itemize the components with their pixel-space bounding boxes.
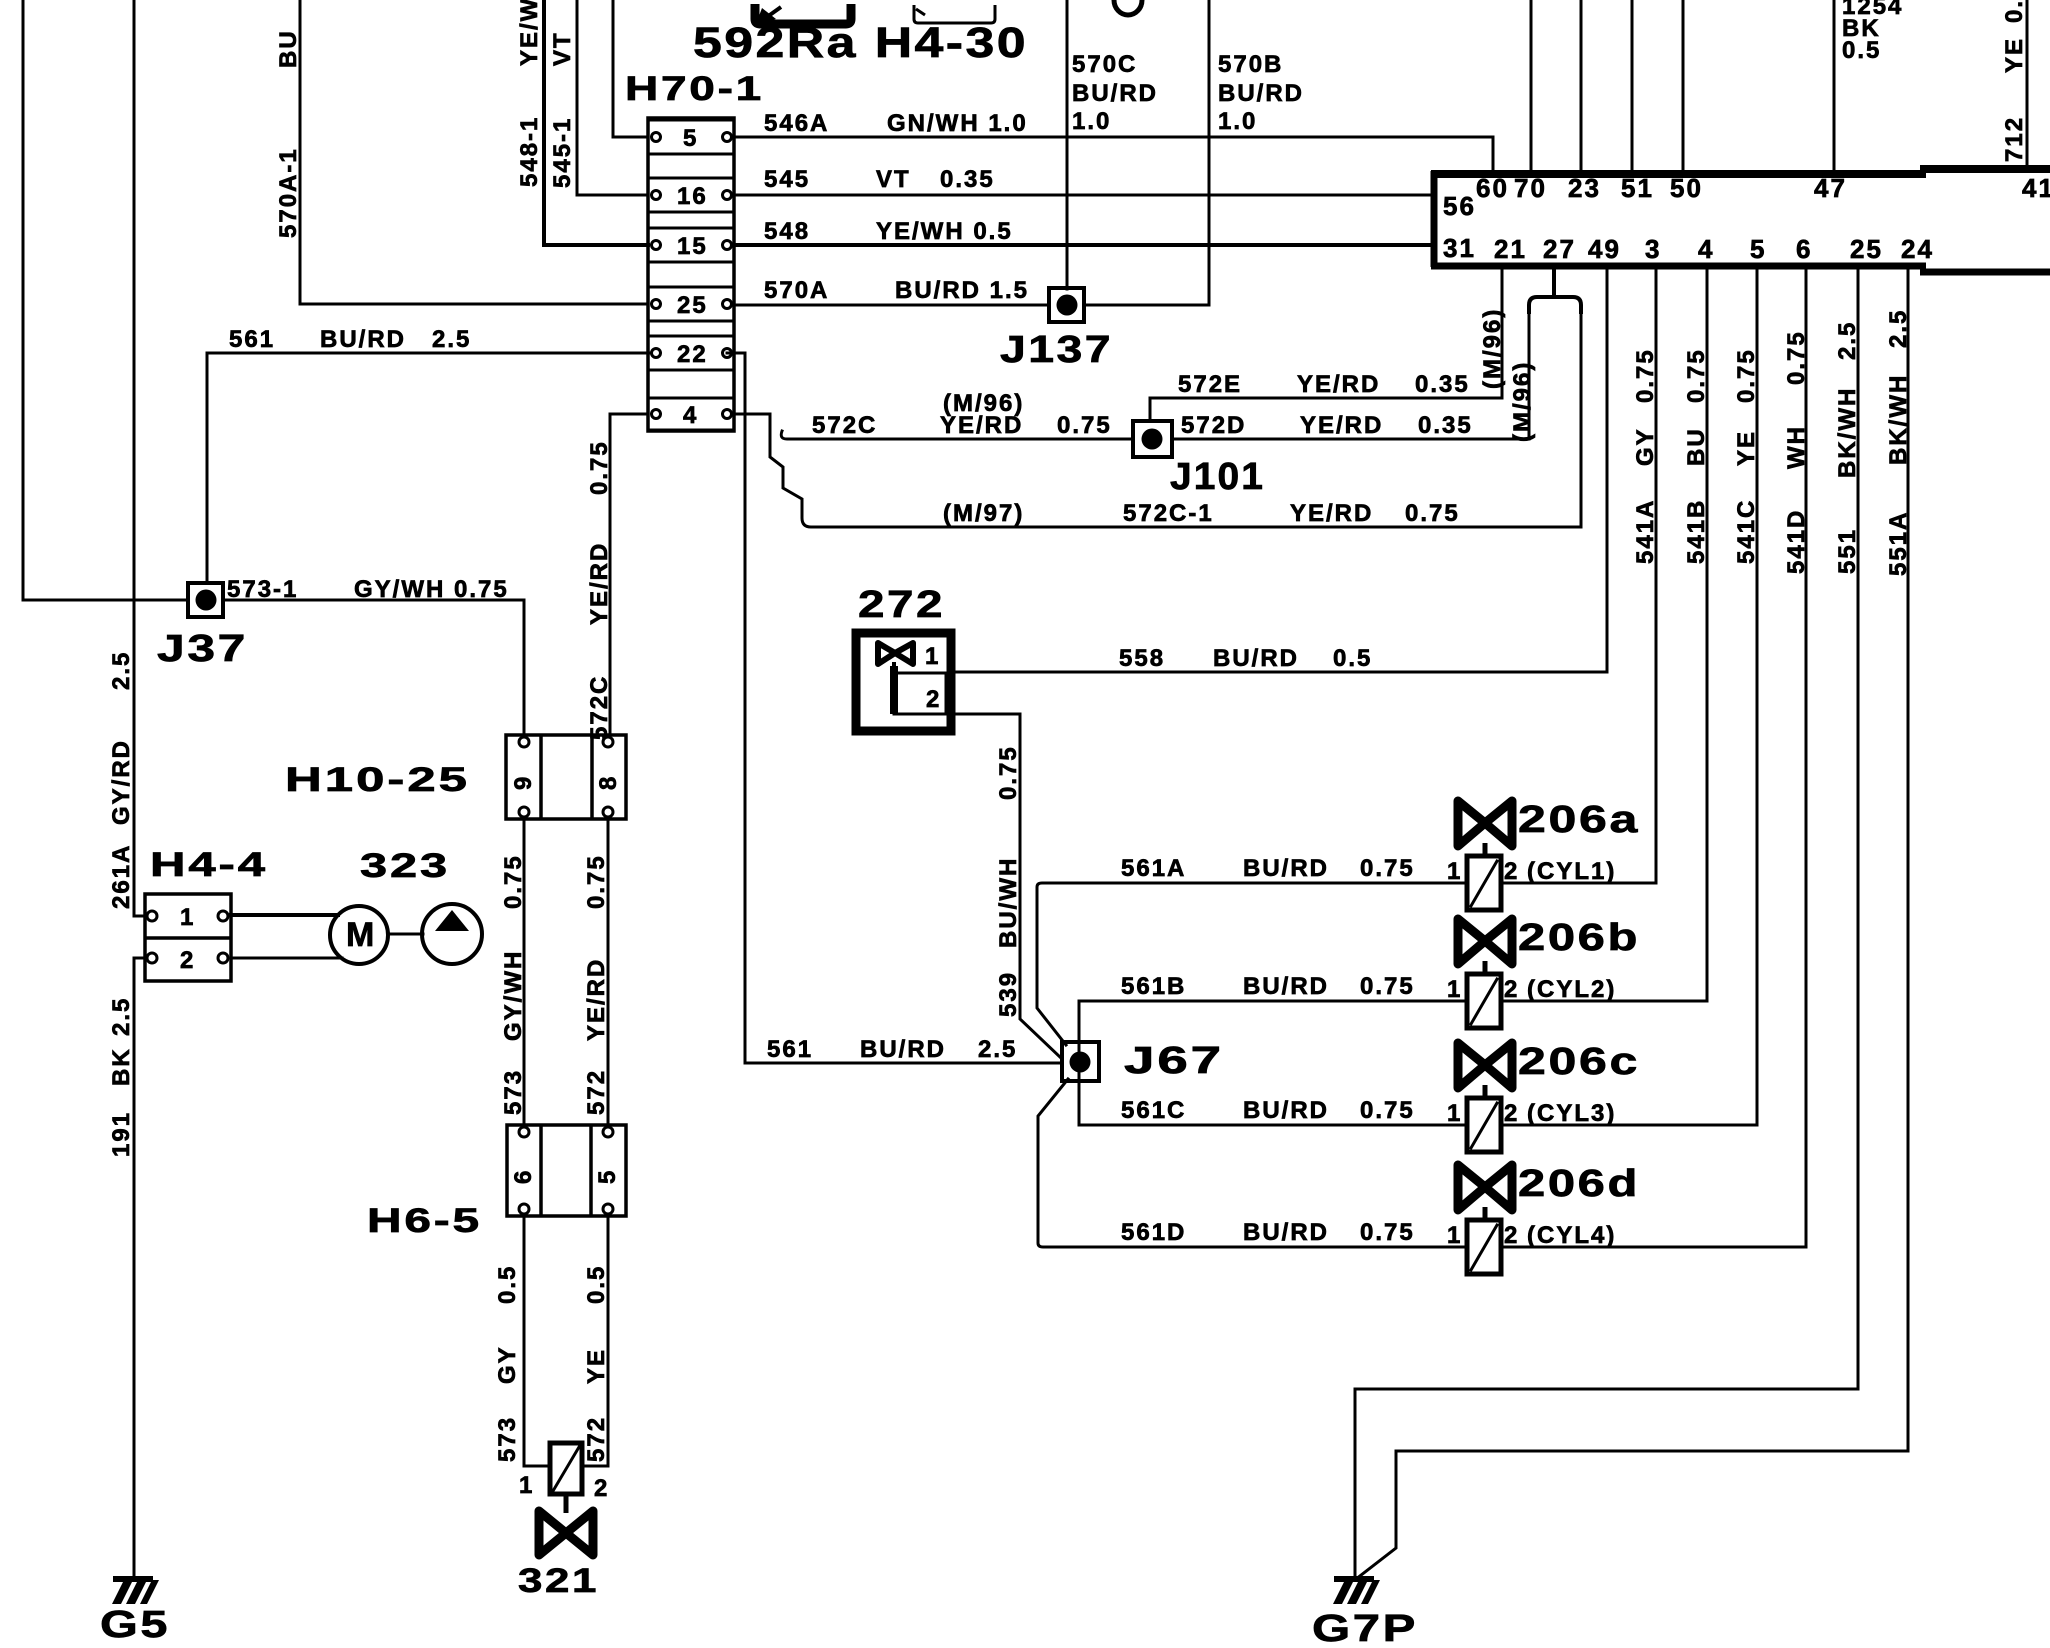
svg-text:YE/RD: YE/RD (586, 542, 613, 625)
label 561 BU/RD 2.5 (at J67) (767, 1036, 1017, 1063)
svg-text:(CYL1): (CYL1) (1527, 858, 1616, 885)
wire to ECU pin 50 (1682, 0, 1685, 171)
wire motor to pump (388, 933, 423, 936)
svg-text:545-1: 545-1 (549, 117, 576, 188)
svg-text:5: 5 (683, 125, 698, 152)
label 572E YE/RD 0.35 (1178, 371, 1470, 398)
svg-text:206d: 206d (1518, 1163, 1640, 1205)
svg-text:558: 558 (1119, 645, 1165, 672)
svg-text:0.75: 0.75 (1683, 348, 1710, 403)
svg-text:0.5: 0.5 (583, 1265, 610, 1304)
svg-text:WH: WH (1783, 425, 1810, 469)
svg-text:BU/RD: BU/RD (1072, 80, 1158, 107)
injector solenoid 206a (1447, 856, 1616, 910)
wire 572 YE/RD 0.75 (H10-25 pin 8 to H6-5 pin 5) (607, 819, 610, 1125)
svg-text:1: 1 (1447, 1100, 1462, 1127)
label 1254 BK 0.5 (1842, 0, 1903, 64)
svg-text:191: 191 (108, 1111, 135, 1157)
svg-text:8: 8 (595, 775, 622, 790)
injector solenoid 206b (1447, 974, 1616, 1028)
svg-text:572C: 572C (586, 675, 613, 740)
wire 558 BU/RD 0.5 (ECU pin 49 to 272 pin 1) (955, 268, 1607, 672)
svg-text:1: 1 (519, 1472, 534, 1499)
label 572D YE/RD 0.35 (1181, 412, 1473, 439)
svg-text:47: 47 (1814, 173, 1847, 203)
svg-text:206b: 206b (1518, 917, 1640, 959)
svg-text:1: 1 (925, 643, 940, 670)
cut connector symbol above 592Ra (755, 4, 851, 24)
wire 572 YE 0.5 (H6-5 pin 5 to valve 321 pin 2) (582, 1216, 608, 1466)
svg-text:GN/WH 1.0: GN/WH 1.0 (887, 110, 1028, 137)
wire 541B BU 0.75 (ECU pin 4 to injector 206b) (1501, 268, 1707, 1001)
wire 261A GY/RD 2.5 (top to H4-4 pin 1) (134, 0, 145, 916)
wire 572D YE/RD 0.35 (J101 to ECU pin 27 branch) (1172, 310, 1529, 439)
wire 572C YE/RD 0.75 (H70-1 pin 4 down to H10-25 pin 8) (610, 414, 648, 735)
svg-text:570A-1: 570A-1 (275, 147, 302, 238)
svg-text:51: 51 (1621, 173, 1654, 203)
injector solenoid 206c (1447, 1098, 1616, 1152)
label 570C BU/RD 1.0 (1072, 51, 1158, 135)
ECU connector box (cut at right) (1431, 169, 2050, 272)
svg-text:YE: YE (583, 1348, 610, 1384)
label 572C-1 YE/RD 0.75 (1123, 500, 1460, 527)
junction J67 (1062, 1042, 1099, 1081)
wire ECU pin 27 branch bracket (1529, 268, 1581, 312)
wire 551A BK/WH 2.5 (ECU pin 24 to ground G7P) (1356, 268, 1908, 1579)
svg-text:YE/RD: YE/RD (1290, 500, 1373, 527)
svg-text:2.5: 2.5 (978, 1036, 1017, 1063)
wire 561B BU/RD 0.75 (J67 to injector 206b pin 1) (1079, 1001, 1467, 1063)
svg-text:2: 2 (1504, 1222, 1519, 1249)
svg-text:GY: GY (1632, 427, 1659, 466)
ground G7P (1333, 1576, 1380, 1604)
wire 561D BU/RD 0.75 (J67 to injector 206d pin 1) (1038, 1079, 1467, 1247)
svg-text:G7P: G7P (1312, 1608, 1418, 1648)
svg-text:548: 548 (764, 218, 810, 245)
svg-text:541C: 541C (1733, 499, 1760, 564)
svg-text:BU: BU (275, 29, 302, 68)
svg-text:0.75: 0.75 (1733, 348, 1760, 403)
wire 541D WH 0.75 (ECU pin 6 to injector 206d) (1501, 268, 1806, 1247)
svg-text:49: 49 (1588, 234, 1621, 264)
svg-text:561D: 561D (1121, 1219, 1186, 1246)
label 546A GN/WH 1.0 (764, 110, 1028, 137)
svg-text:BU/RD: BU/RD (1243, 855, 1329, 882)
svg-text:0.5: 0.5 (1333, 645, 1372, 672)
label 551A BK/WH 2.5 (1885, 309, 1912, 576)
svg-text:573: 573 (494, 1416, 521, 1462)
wire 1254 BK 0.5 to ECU pin 47 (1833, 0, 1836, 171)
svg-text:548-1: 548-1 (516, 116, 543, 187)
svg-text:2: 2 (1504, 976, 1519, 1003)
label 545 VT 0.35 (764, 166, 995, 193)
svg-text:25: 25 (1850, 234, 1883, 264)
svg-text:BU: BU (1683, 427, 1710, 466)
valve symbol 321 (539, 1494, 593, 1555)
svg-text:2.5: 2.5 (108, 997, 135, 1036)
wire 541A GY 0.75 (ECU pin 3 to injector 206a) (1501, 268, 1656, 883)
svg-text:J137: J137 (1000, 329, 1113, 371)
svg-text:0.35: 0.35 (1415, 371, 1470, 398)
svg-text:1: 1 (1447, 858, 1462, 885)
svg-text:2.5: 2.5 (108, 651, 135, 690)
svg-text:VT: VT (876, 166, 911, 193)
svg-text:3: 3 (1645, 234, 1661, 264)
svg-text:1.0: 1.0 (1218, 108, 1257, 135)
junction J101 (1133, 421, 1172, 457)
wire 546A GN/WH 1.0 (H70-1 pin 5 to ECU pin 60) (734, 137, 1493, 171)
svg-text:BU/RD 1.5: BU/RD 1.5 (895, 277, 1029, 304)
connector H70-1 (648, 118, 734, 431)
svg-text:272: 272 (858, 584, 945, 626)
svg-text:BU/RD: BU/RD (1243, 1097, 1329, 1124)
svg-text:27: 27 (1543, 234, 1576, 264)
label 545-1 VT (549, 31, 576, 188)
svg-text:J101: J101 (1170, 456, 1265, 498)
svg-text:(CYL2): (CYL2) (1527, 976, 1616, 1003)
svg-text:545: 545 (764, 166, 810, 193)
label 261A GY/RD 2.5 (108, 651, 135, 909)
label 561B BU/RD 0.75 (1121, 973, 1415, 1000)
svg-text:0.75: 0.75 (1360, 855, 1415, 882)
svg-text:0.: 0. (2001, 0, 2028, 23)
wire H4-4 pin 2 to motor 323 (231, 957, 342, 960)
svg-text:0.5: 0.5 (1842, 37, 1881, 64)
svg-text:572: 572 (583, 1416, 610, 1462)
wire 570B BU/RD 1.0 (top to J137 branch) (1084, 0, 1209, 305)
svg-text:J37: J37 (157, 628, 248, 670)
svg-text:YE: YE (1733, 430, 1760, 466)
svg-text:2.5: 2.5 (432, 326, 471, 353)
svg-text:BU/RD: BU/RD (1213, 645, 1299, 672)
injector solenoid 206d (1447, 1220, 1616, 1274)
svg-text:2.5: 2.5 (1885, 309, 1912, 348)
svg-text:BK/WH: BK/WH (1834, 387, 1861, 478)
svg-text:23: 23 (1568, 173, 1601, 203)
wire 561A BU/RD 0.75 (J67 to injector 206a pin 1) (1037, 883, 1467, 1045)
connector H6-5 (507, 1125, 626, 1216)
svg-text:6: 6 (1796, 234, 1812, 264)
svg-text:1: 1 (180, 904, 195, 931)
svg-text:5: 5 (594, 1169, 621, 1184)
label 561A BU/RD 0.75 (1121, 855, 1415, 882)
svg-text:VT: VT (549, 31, 576, 66)
svg-text:BU/RD: BU/RD (320, 326, 406, 353)
svg-text:(CYL3): (CYL3) (1527, 1100, 1616, 1127)
svg-text:YE/RD: YE/RD (940, 412, 1023, 439)
svg-text:0.75: 0.75 (583, 854, 610, 909)
wire 572E YE/RD 0.35 (J101 to ECU pin 21) (1150, 268, 1502, 421)
label 572 YE 0.5 (583, 1265, 610, 1462)
svg-text:(M/96): (M/96) (1479, 308, 1506, 389)
svg-text:4: 4 (1698, 234, 1714, 264)
svg-text:2.5: 2.5 (1834, 321, 1861, 360)
svg-text:BK/WH: BK/WH (1885, 374, 1912, 465)
wire 572C YE/RD 0.75 (to J101) (781, 431, 1133, 439)
svg-text:206c: 206c (1518, 1041, 1640, 1083)
svg-text:5: 5 (1750, 234, 1766, 264)
svg-text:0.75: 0.75 (500, 854, 527, 909)
svg-text:1.0: 1.0 (1072, 108, 1111, 135)
injector valve 206d (1458, 1165, 1512, 1222)
svg-text:41: 41 (2022, 173, 2050, 203)
svg-text:24: 24 (1901, 234, 1934, 264)
svg-text:541A: 541A (1632, 499, 1659, 564)
wire to ECU pin 23 (1580, 0, 1583, 171)
svg-text:YE: YE (2001, 37, 2028, 73)
wire 545-1 (top to H70-1 pin 16) (577, 0, 648, 195)
svg-text:YE/W: YE/W (516, 0, 543, 66)
wire 570C BU/RD 1.0 (top to J137) (1066, 0, 1069, 289)
svg-text:572C-1: 572C-1 (1123, 500, 1214, 527)
svg-text:70: 70 (1514, 173, 1547, 203)
wire H4-4 pin 1 to motor 323 (231, 913, 338, 917)
label 541B BU 0.75 (1683, 348, 1710, 564)
label 561 BU/RD 2.5 (229, 326, 471, 353)
svg-text:15: 15 (677, 233, 708, 260)
cut lamp symbol (semicircle) (1114, 0, 1142, 15)
svg-text:561C: 561C (1121, 1097, 1186, 1124)
svg-text:551A: 551A (1885, 511, 1912, 576)
injector valve 206b (1458, 919, 1512, 976)
label 541A GY 0.75 (1632, 348, 1659, 564)
wire to ECU pin 51 (1631, 0, 1634, 171)
svg-text:570A: 570A (764, 277, 829, 304)
label 572C YE/RD 0.75 (vertical) (586, 440, 613, 740)
label 570A-1 BU (275, 29, 302, 238)
svg-text:H4-4: H4-4 (150, 846, 268, 884)
svg-text:56: 56 (1443, 191, 1476, 221)
svg-text:323: 323 (360, 847, 450, 885)
svg-text:0.75: 0.75 (1057, 412, 1112, 439)
label 191 BK 2.5 (108, 997, 135, 1157)
svg-text:YE/RD: YE/RD (1297, 371, 1380, 398)
label 561C BU/RD 0.75 (1121, 1097, 1415, 1124)
wire 551 BK/WH 2.5 (ECU pin 25 to ground G7P) (1355, 268, 1858, 1577)
junction J37 (188, 583, 223, 617)
svg-text:561: 561 (767, 1036, 813, 1063)
svg-text:573: 573 (500, 1069, 527, 1115)
wire 712 YE to ECU pin 41 (2026, 0, 2029, 169)
svg-text:541B: 541B (1683, 499, 1710, 564)
svg-text:572: 572 (583, 1069, 610, 1115)
svg-text:(M/97): (M/97) (943, 500, 1024, 527)
injector valve 206a (1458, 801, 1512, 858)
wire 545 VT 0.35 (H70-1 pin 16 to ECU pin 56) (734, 194, 1431, 197)
label 570A BU/RD 1.5 (764, 277, 1029, 304)
svg-text:22: 22 (677, 341, 708, 368)
svg-text:2: 2 (180, 947, 195, 974)
ECU pin numbers bottom row (1494, 234, 1934, 264)
wire 541C YE 0.75 (ECU pin 5 to injector 206c) (1501, 268, 1757, 1125)
svg-text:YE/RD: YE/RD (583, 958, 610, 1041)
ECU pin numbers top row (1476, 173, 2050, 203)
svg-text:1: 1 (1447, 976, 1462, 1003)
component 272 (boost pressure valve) (856, 633, 951, 731)
solenoid coil 321 (519, 1443, 609, 1502)
svg-text:573-1: 573-1 (227, 576, 298, 603)
motor 323 (M) (330, 906, 388, 964)
svg-text:H10-25: H10-25 (285, 761, 470, 799)
label 570B BU/RD 1.0 (1218, 51, 1304, 135)
svg-text:570C: 570C (1072, 51, 1137, 78)
svg-text:H70-1: H70-1 (625, 70, 764, 108)
svg-text:206a: 206a (1518, 799, 1640, 841)
svg-text:2: 2 (1504, 1100, 1519, 1127)
svg-text:GY/WH: GY/WH (500, 950, 527, 1041)
svg-text:BU/RD: BU/RD (860, 1036, 946, 1063)
svg-text:BU/RD: BU/RD (1218, 80, 1304, 107)
label 561D BU/RD 0.75 (1121, 1219, 1415, 1246)
wire 570A-1 BU (top to H70-1 pin 25) (300, 0, 648, 304)
svg-text:J67: J67 (1124, 1040, 1224, 1082)
label 558 BU/RD 0.5 (1119, 645, 1372, 672)
svg-text:541D: 541D (1783, 509, 1810, 574)
svg-text:BU/RD: BU/RD (1243, 973, 1329, 1000)
wire 573 GY/WH 0.75 (H10-25 pin 9 to H6-5 pin 6) (523, 819, 526, 1125)
svg-text:16: 16 (677, 183, 708, 210)
connector H4-4 (145, 894, 231, 981)
wire 573-1 GY/WH 0.75 (J37 to H10-25 pin 9) (223, 600, 524, 735)
svg-text:592Ra H4-30: 592Ra H4-30 (693, 19, 1028, 67)
svg-text:0.35: 0.35 (1418, 412, 1473, 439)
svg-text:G5: G5 (100, 1604, 170, 1646)
svg-text:BU/RD: BU/RD (1243, 1219, 1329, 1246)
label 548 YE/WH 0.5 (764, 218, 1013, 245)
svg-text:60: 60 (1476, 173, 1509, 203)
label 572 YE/RD 0.75 (583, 854, 610, 1115)
svg-text:572E: 572E (1178, 371, 1242, 398)
wire from top-left to junction J37 (23, 0, 186, 600)
wire from top to H70-1 pin 5 (613, 0, 648, 137)
svg-text:551: 551 (1834, 528, 1861, 574)
svg-text:BK: BK (108, 1047, 135, 1086)
svg-text:50: 50 (1670, 173, 1703, 203)
svg-text:2: 2 (594, 1475, 609, 1502)
svg-text:YE/WH 0.5: YE/WH 0.5 (876, 218, 1013, 245)
label 712 YE 0.5 (2001, 0, 2028, 162)
svg-text:25: 25 (677, 292, 708, 319)
svg-text:321: 321 (518, 1562, 599, 1600)
svg-text:2: 2 (1504, 858, 1519, 885)
svg-text:BU/WH: BU/WH (995, 857, 1022, 948)
svg-text:0.75: 0.75 (1360, 1219, 1415, 1246)
svg-text:561A: 561A (1121, 855, 1186, 882)
label 541D WH 0.75 (1783, 330, 1810, 574)
wire 561 BU/RD 2.5 (H70-1 pin 22 to J37) (207, 353, 650, 581)
svg-text:0.75: 0.75 (1405, 500, 1460, 527)
svg-text:(M/96): (M/96) (1509, 361, 1536, 442)
label 573 GY 0.5 (494, 1265, 521, 1462)
svg-text:H6-5: H6-5 (367, 1202, 482, 1240)
label 548-1 YE/WH (516, 0, 543, 187)
ground G5 (112, 1576, 159, 1604)
svg-text:0.5: 0.5 (494, 1265, 521, 1304)
wire 548 YE/WH 0.5 (H70-1 pin 15 to ECU pin 31) (734, 243, 1431, 247)
svg-text:21: 21 (1494, 234, 1527, 264)
svg-text:561: 561 (229, 326, 275, 353)
wire 191 BK 2.5 (H4-4 pin 2 to ground G5) (134, 958, 145, 1578)
svg-text:GY/RD: GY/RD (108, 739, 135, 825)
svg-text:0.75: 0.75 (1632, 348, 1659, 403)
wire 548-1 (top to H70-1 pin 15) (544, 0, 648, 245)
svg-text:9: 9 (510, 775, 537, 790)
wire 539 BU/WH 0.75 (272 pin 2 to J67) (951, 714, 1060, 1057)
label 572C YE/RD 0.75 (812, 412, 1112, 439)
svg-text:572C: 572C (812, 412, 877, 439)
svg-text:31: 31 (1443, 233, 1476, 263)
svg-text:0.75: 0.75 (586, 440, 613, 495)
svg-text:GY: GY (494, 1345, 521, 1384)
svg-text:YE/RD: YE/RD (1300, 412, 1383, 439)
connector H10-25 (506, 735, 626, 819)
svg-text:2: 2 (926, 686, 941, 713)
svg-text:0.75: 0.75 (995, 745, 1022, 800)
junction J137 (1049, 288, 1084, 322)
svg-text:546A: 546A (764, 110, 829, 137)
svg-text:4: 4 (683, 402, 698, 429)
label 551 BK/WH 2.5 (1834, 321, 1861, 574)
wire to ECU pin 70 (1530, 0, 1533, 171)
svg-text:0.75: 0.75 (1360, 1097, 1415, 1124)
label 539 BU/WH 0.75 (995, 745, 1022, 1017)
svg-text:6: 6 (510, 1169, 537, 1184)
label 573 GY/WH 0.75 (500, 854, 527, 1115)
svg-text:539: 539 (995, 971, 1022, 1017)
injector valve 206c (1458, 1043, 1512, 1100)
wire 573 GY 0.5 (H6-5 pin 6 to valve 321 pin 1) (524, 1216, 550, 1466)
svg-text:0.75: 0.75 (1783, 330, 1810, 385)
svg-text:0.35: 0.35 (940, 166, 995, 193)
svg-text:1: 1 (1447, 1222, 1462, 1249)
wire from H70-1 pin 4 right with branches to 572C and 572C-1 (734, 310, 1581, 527)
wire 561 BU/RD 2.5 (H70-1 pin 22 down to J67) (727, 353, 1062, 1063)
svg-text:261A: 261A (108, 844, 135, 909)
svg-text:0.75: 0.75 (1360, 973, 1415, 1000)
pump symbol 323 (422, 904, 482, 964)
svg-text:570B: 570B (1218, 51, 1283, 78)
wire 561C BU/RD 0.75 (J67 to injector 206c pin 1) (1079, 1063, 1467, 1125)
svg-text:(CYL4): (CYL4) (1527, 1222, 1616, 1249)
wire 570A BU/RD 1.5 (H70-1 pin 25 to J137) (734, 304, 1049, 307)
cut connector symbol above H4-30 (914, 5, 995, 23)
svg-text:561B: 561B (1121, 973, 1186, 1000)
svg-text:572D: 572D (1181, 412, 1246, 439)
svg-text:712: 712 (2001, 116, 2028, 162)
label 541C YE 0.75 (1733, 348, 1760, 564)
svg-text:M: M (346, 916, 376, 954)
svg-text:GY/WH 0.75: GY/WH 0.75 (354, 576, 509, 603)
label 573-1 GY/WH 0.75 (227, 576, 509, 603)
